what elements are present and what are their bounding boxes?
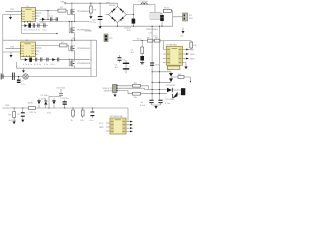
svg-text:D10 SSR: D10 SSR <box>166 99 175 101</box>
svg-text:4u7/50V: 4u7/50V <box>9 120 17 122</box>
svg-text:24V: 24V <box>189 18 193 20</box>
svg-text:VCC: VCC <box>137 39 142 41</box>
svg-text:1M: 1M <box>93 9 96 11</box>
svg-text:SENSOR: SENSOR <box>104 91 113 93</box>
svg-text:TP5IRFB4N06: TP5IRFB4N06 <box>77 63 91 65</box>
svg-text:C11 100n: C11 100n <box>60 98 70 100</box>
svg-text:230VAC: 230VAC <box>85 30 93 33</box>
svg-text:GND: GND <box>99 127 104 129</box>
svg-text:LT 4.7u: LT 4.7u <box>33 30 41 32</box>
svg-text:DC: DC <box>189 15 193 17</box>
svg-text:TP5IRFB4N06: TP5IRFB4N06 <box>77 11 91 13</box>
svg-text:VCC: VCC <box>99 123 104 125</box>
svg-text:W10M: W10M <box>109 5 115 7</box>
svg-text:4.7uF: 4.7uF <box>140 105 146 107</box>
svg-text:RXD: RXD <box>190 54 195 56</box>
svg-text:35V: 35V <box>127 30 131 32</box>
svg-text:CRYDOM: CRYDOM <box>166 85 175 87</box>
svg-text:U4 LM92CIM: U4 LM92CIM <box>110 116 123 118</box>
svg-text:TXD: TXD <box>190 50 195 52</box>
svg-text:10uF: 10uF <box>155 65 160 67</box>
svg-text:L2 100uH: L2 100uH <box>139 1 149 3</box>
svg-text:100R: 100R <box>28 102 33 104</box>
svg-text:+5V: +5V <box>180 36 184 38</box>
svg-text:R11 1k: R11 1k <box>30 112 37 114</box>
svg-text:4.7uF: 4.7uF <box>165 103 171 105</box>
svg-text:C5 100n: C5 100n <box>41 95 50 97</box>
svg-text:24V: 24V <box>72 38 76 40</box>
svg-text:GND: GND <box>190 59 195 61</box>
svg-text:U5 MEGA8: U5 MEGA8 <box>166 43 177 46</box>
svg-text:LT 4.7u: LT 4.7u <box>34 64 42 66</box>
svg-text:C10 100n: C10 100n <box>56 88 66 90</box>
svg-text:R5 1k: R5 1k <box>164 7 170 9</box>
svg-text:TP5IRFB4N06: TP5IRFB4N06 <box>77 48 91 50</box>
